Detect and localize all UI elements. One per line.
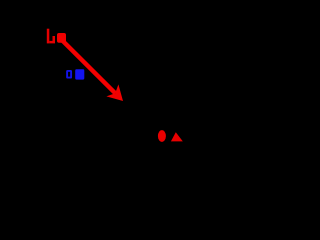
red b-shaped glyph (label "b") top-left — [47, 29, 55, 44]
blue hollow square marker — [67, 71, 71, 78]
red solid square blob (label "o") — [57, 33, 66, 43]
red arrowhead — [106, 84, 123, 101]
blue filled square marker — [75, 69, 84, 79]
red triangle marker bottom-right — [171, 132, 183, 141]
red arrow shaft — [59, 37, 115, 93]
red filled oval marker bottom-right — [158, 130, 166, 142]
